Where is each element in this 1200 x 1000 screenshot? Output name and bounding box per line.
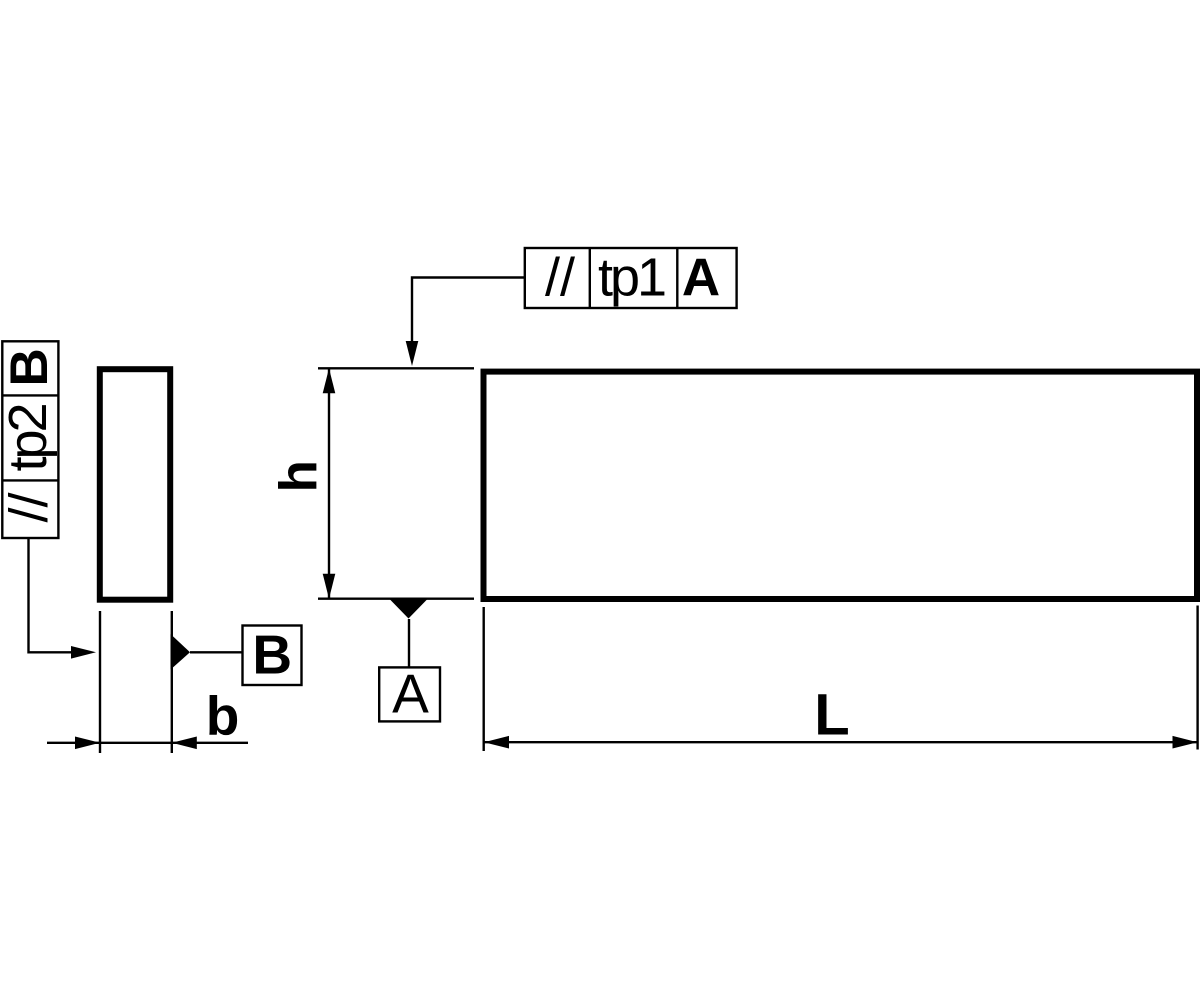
svg-text:tp2: tp2 [0, 405, 58, 472]
side view rectangle (key length, right) [484, 372, 1198, 599]
end view rectangle (key cross-section, left) [100, 369, 170, 600]
leader arrowhead (right) [71, 646, 96, 659]
h dimension extension line top [318, 367, 474, 369]
b dimension extension line right [171, 611, 173, 753]
svg-text:A: A [682, 249, 720, 308]
datum B box [243, 626, 302, 686]
svg-text://: // [545, 248, 575, 308]
svg-text:h: h [269, 460, 328, 492]
L dimension extension line right [1196, 606, 1198, 750]
svg-text:tp1: tp1 [598, 248, 665, 308]
L dimension line [484, 741, 1198, 743]
L dimension extension line left [483, 607, 485, 751]
datum feature symbol A: filled triangle under bottom surface of side view [390, 600, 427, 619]
leader from FCF1 to top surface [412, 278, 525, 343]
datum feature symbol B: filled triangle on right face of end view [171, 634, 191, 670]
b dimension line [47, 742, 248, 744]
h dimension arrowhead down [323, 574, 336, 599]
datum A box [379, 667, 440, 721]
feature control frame FCF2 (left, rotated): // tp2 B [0, 341, 59, 538]
svg-text://: // [0, 492, 59, 522]
leader arrowhead (down) [406, 341, 419, 366]
h dimension extension line bottom [318, 598, 474, 600]
L dimension arrowhead left [484, 736, 509, 749]
svg-text:B: B [0, 348, 59, 386]
L dimension arrowhead right [1173, 736, 1198, 749]
h dimension line [328, 368, 330, 598]
svg-text:A: A [392, 663, 429, 725]
feature control frame FCF1 (top): // tp1 A [525, 248, 737, 308]
svg-text:B: B [252, 624, 292, 686]
b dimension arrowhead (points left at right ext line) [172, 737, 197, 750]
b dimension extension line left [99, 611, 101, 753]
svg-text:b: b [206, 684, 240, 746]
b dimension arrowhead (points right at left ext line) [75, 737, 100, 750]
datum B stem line [190, 651, 243, 653]
leader from FCF2 to left surface of end view [29, 538, 73, 652]
svg-text:L: L [814, 682, 849, 747]
datum A stem line [408, 619, 410, 667]
h dimension arrowhead up [323, 368, 336, 393]
